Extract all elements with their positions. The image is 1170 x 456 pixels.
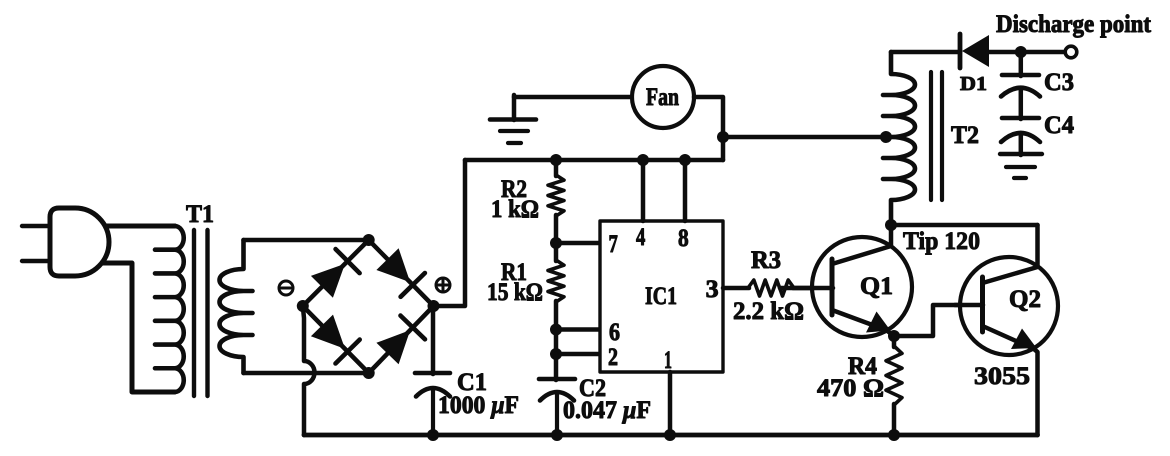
wire T2 bottom / Q1 collector / Q2 collector bbox=[891, 223, 1038, 228]
wire plug top lead to T1 primary bbox=[96, 224, 175, 229]
wire plug prong upper bbox=[22, 224, 52, 228]
wire plug bottom lead down and to T1 primary bottom bbox=[96, 263, 175, 392]
capacitor C1 bbox=[415, 371, 450, 376]
wire T1 secondary top to bridge top node bbox=[244, 238, 369, 243]
svg-text:1: 1 bbox=[664, 347, 672, 374]
pin 1 bbox=[668, 372, 673, 435]
svg-text:1 kΩ: 1 kΩ bbox=[491, 196, 539, 223]
wire bridge minus node down to ground rail (with hop over wire) bbox=[303, 306, 315, 435]
transformer T2 core bbox=[929, 72, 933, 200]
bridge rectifier edges bbox=[303, 240, 369, 306]
bridge node junction dots bbox=[297, 300, 309, 312]
transistor Q1 bbox=[812, 237, 912, 337]
svg-text:IC1: IC1 bbox=[645, 283, 677, 310]
svg-text:Q2: Q2 bbox=[1009, 286, 1041, 313]
svg-text:2: 2 bbox=[608, 344, 618, 371]
svg-text:D1: D1 bbox=[960, 73, 987, 95]
transformer T1 secondary winding bbox=[220, 240, 253, 373]
svg-text:0.047 μF: 0.047 μF bbox=[563, 397, 651, 424]
capacitor C4 bbox=[1019, 88, 1024, 119]
fan motor M1 bbox=[632, 66, 694, 128]
wire ground to fan bbox=[514, 95, 633, 100]
svg-text:Fan: Fan bbox=[646, 84, 679, 111]
resistor R1 bbox=[548, 260, 564, 302]
pin 4 bbox=[641, 160, 646, 221]
pin 8 bbox=[683, 160, 688, 221]
transistor Q2 bbox=[960, 257, 1058, 355]
svg-text:7: 7 bbox=[609, 231, 618, 258]
svg-text:T2: T2 bbox=[951, 122, 979, 149]
wire T2 top to D1 bbox=[891, 50, 960, 55]
svg-text:2.2 kΩ: 2.2 kΩ bbox=[733, 298, 804, 325]
wire bridge plus node to supply bus bbox=[434, 160, 466, 306]
svg-text:1000 μF: 1000 μF bbox=[438, 392, 519, 419]
op IC1 box bbox=[600, 221, 723, 372]
capacitor C2 bbox=[554, 354, 559, 380]
ground symbol below C4 bbox=[1019, 133, 1024, 155]
svg-text:4: 4 bbox=[636, 224, 646, 251]
svg-text:R3: R3 bbox=[751, 247, 781, 274]
wire to pin 7 bbox=[556, 241, 601, 246]
wire fan to bus corner bbox=[694, 97, 723, 160]
bridge diode top-right bbox=[376, 248, 410, 282]
node minus symbol bbox=[279, 281, 293, 295]
bridge diode top-left bbox=[311, 264, 345, 298]
discharge point terminal bbox=[1065, 46, 1077, 58]
svg-text:T1: T1 bbox=[186, 201, 214, 228]
transformer T1 primary winding bbox=[155, 226, 184, 392]
diode D1 bbox=[958, 34, 963, 68]
resistor R4 bbox=[892, 336, 897, 347]
svg-text:C4: C4 bbox=[1044, 112, 1074, 139]
transformer T1 core bbox=[192, 230, 196, 396]
wire to pin 6 bbox=[556, 327, 601, 332]
node plus symbol bbox=[436, 278, 450, 292]
svg-text:C3: C3 bbox=[1044, 69, 1074, 96]
svg-text:6: 6 bbox=[609, 319, 620, 346]
wire bus to T2 tap bbox=[723, 135, 886, 140]
svg-text:3055: 3055 bbox=[974, 363, 1030, 390]
supply bus wire bbox=[465, 158, 723, 163]
wire plus node down to C1 bbox=[431, 306, 436, 374]
svg-text:8: 8 bbox=[678, 225, 689, 252]
bridge diode bottom-right bbox=[376, 330, 410, 364]
svg-text:Tip 120: Tip 120 bbox=[903, 228, 980, 255]
svg-text:15 kΩ: 15 kΩ bbox=[487, 279, 543, 306]
svg-text:470 Ω: 470 Ω bbox=[817, 375, 884, 402]
wire to pin 2 bbox=[556, 352, 601, 357]
svg-text:Q1: Q1 bbox=[860, 273, 893, 300]
svg-text:Discharge point: Discharge point bbox=[996, 11, 1152, 38]
resistor R3 bbox=[748, 280, 794, 296]
bridge diode bottom-left bbox=[311, 315, 345, 349]
svg-text:3: 3 bbox=[706, 276, 719, 303]
AC plug P1 bbox=[50, 208, 109, 276]
ground symbol near fan bbox=[512, 95, 517, 120]
pin 3 bbox=[723, 286, 749, 291]
wire T1 secondary bottom to bridge bottom node bbox=[244, 371, 369, 376]
wire plug prong lower bbox=[22, 259, 52, 263]
transformer T2 winding bbox=[883, 52, 915, 225]
capacitor C3 bbox=[1019, 52, 1024, 76]
wire Q1 emitter to Q2 base bbox=[894, 305, 983, 336]
resistor R2 bbox=[548, 175, 564, 216]
ground rail wire bbox=[304, 433, 1038, 438]
